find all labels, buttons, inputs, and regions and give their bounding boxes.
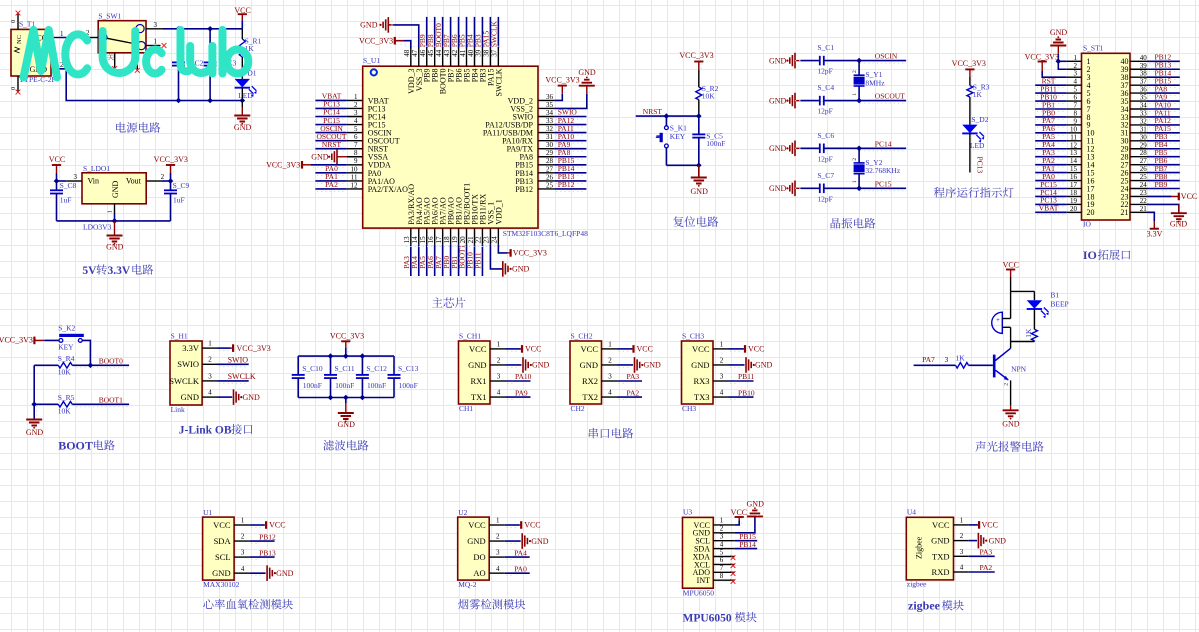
svg-text:PA7: PA7 (922, 355, 935, 364)
wire net PB11 (1035, 92, 1067, 94)
svg-text:VCC: VCC (731, 508, 747, 517)
switch contacts (99, 33, 107, 41)
svg-text:Vin: Vin (88, 176, 100, 185)
junction (664, 113, 670, 119)
svg-text:2: 2 (720, 525, 724, 533)
svg-text:S_C10: S_C10 (302, 364, 323, 373)
wire (82, 340, 90, 365)
svg-text:PC15: PC15 (875, 179, 892, 188)
svg-text:SDA: SDA (214, 536, 232, 546)
pin 34 of ST1 (1130, 108, 1147, 110)
svg-text:21: 21 (467, 236, 475, 244)
svg-text:8MHz: 8MHz (865, 78, 885, 87)
pin 5 (OSCIN) of U1 (347, 132, 363, 134)
wire net PB1 (1035, 108, 1067, 110)
svg-text:2: 2 (1074, 62, 1078, 70)
wire net PA6 (1035, 132, 1067, 134)
pin 47 (VSS_3) of U1 top (418, 48, 420, 66)
GND stem (345, 403, 347, 413)
power port VCC (506, 348, 521, 350)
svg-text:10: 10 (1070, 125, 1078, 133)
wire pin48 to VCC_3V3 (404, 41, 411, 48)
svg-text:PB12: PB12 (515, 185, 533, 194)
svg-text:VCC: VCC (581, 344, 599, 354)
pin 44 (BOOT0) of U1 top (442, 48, 444, 66)
svg-text:SWCLK: SWCLK (490, 20, 499, 47)
pin 38 (PA15) of U1 top (489, 48, 491, 66)
pin 3 (PC14) of U1 (347, 116, 363, 118)
power port VCC (505, 524, 520, 526)
wire net PA6 (434, 245, 436, 276)
svg-text:GND: GND (276, 569, 294, 578)
wire net PB3 (481, 17, 483, 48)
svg-text:18: 18 (443, 236, 451, 244)
LED D1 (235, 79, 250, 88)
pin 1 (VCC) of S_CH2 (602, 348, 618, 350)
ground (107, 236, 123, 242)
pin 35 (VSS_2) of U1 (538, 107, 554, 109)
pin 38 of ST1 (1130, 76, 1147, 78)
pin 4 (PC15) of U1 (347, 124, 363, 126)
wire net PA3 (969, 555, 995, 557)
svg-text:13: 13 (403, 236, 411, 244)
svg-text:VCC_3V3: VCC_3V3 (330, 331, 364, 340)
pin 1 stub of T1 (51, 37, 59, 39)
svg-text:CH2: CH2 (571, 404, 585, 413)
wire net PB5 (1147, 156, 1180, 158)
regulator LDO1 (82, 173, 146, 204)
connector S_CH2 (570, 341, 602, 404)
power bar VCC_3V3 (394, 37, 396, 45)
svg-text:GND: GND (769, 144, 787, 153)
svg-text:41: 41 (459, 49, 467, 57)
svg-text:VCC: VCC (469, 344, 487, 354)
pin 42 (PB6) of U1 top (458, 48, 460, 66)
svg-text:NPN: NPN (1011, 364, 1027, 373)
pin 2 stub of SW1 (90, 37, 98, 39)
pin stub SW1 bottom b (136, 53, 138, 70)
wire net PB11 (729, 380, 754, 382)
pin 6 (XCL) of U3 (713, 563, 734, 565)
wire net SWCLK (218, 380, 249, 382)
junction (696, 113, 702, 119)
svg-text:PA0: PA0 (514, 564, 527, 573)
svg-text:11: 11 (1070, 133, 1077, 141)
svg-text:LED: LED (970, 141, 985, 150)
svg-text:PC14: PC14 (875, 139, 892, 148)
pin 25 (PB12) of U1 (538, 188, 554, 190)
ground (579, 80, 595, 86)
svg-text:PB12: PB12 (259, 532, 276, 541)
wire net PA5 (426, 245, 428, 276)
svg-text:15: 15 (419, 236, 427, 244)
wire net PB10 (729, 396, 754, 398)
wire net PB10 (1035, 100, 1067, 102)
wire net PA9 (506, 396, 531, 398)
svg-text:GND: GND (234, 123, 252, 132)
svg-text:4: 4 (720, 389, 724, 397)
pin 32 of ST1 (1130, 124, 1147, 126)
wire net PA2 (315, 188, 346, 190)
power bar (341, 340, 350, 342)
pin 1 of ST1 (1067, 60, 1082, 62)
junction (168, 178, 174, 184)
wire net PB5 (466, 17, 468, 48)
svg-text:VCC: VCC (982, 521, 998, 530)
capacitor S_C6 plates (820, 144, 824, 154)
svg-text:VCC_3V3: VCC_3V3 (1025, 53, 1059, 62)
svg-text:3: 3 (720, 373, 724, 381)
power bar (735, 516, 744, 518)
pin 41 (PB5) of U1 top (466, 48, 468, 66)
svg-text:VCC_3V3: VCC_3V3 (266, 161, 300, 170)
connector U1 (203, 517, 235, 580)
pin 43 (PB7) of U1 top (450, 48, 452, 66)
svg-text:SWCLK: SWCLK (494, 68, 503, 96)
svg-text:VCC: VCC (748, 345, 764, 354)
svg-text:38: 38 (483, 49, 491, 57)
svg-text:VCC_3V3: VCC_3V3 (679, 51, 713, 60)
svg-text:25: 25 (1140, 173, 1148, 181)
svg-text:Vout: Vout (126, 176, 142, 185)
svg-text:KEY: KEY (670, 132, 686, 141)
svg-text:S_C13: S_C13 (398, 364, 419, 373)
junction (88, 363, 94, 369)
svg-text:VCC_3V3: VCC_3V3 (545, 76, 579, 85)
ground (bar style) (336, 149, 338, 165)
svg-text:5: 5 (354, 125, 358, 133)
svg-text:6: 6 (354, 133, 358, 141)
svg-text:S_C1: S_C1 (817, 43, 834, 52)
power bar (694, 61, 703, 63)
svg-text:48: 48 (403, 49, 411, 57)
svg-text:39: 39 (475, 49, 483, 57)
svg-text:SWIO: SWIO (228, 355, 249, 364)
wire net PA10 (506, 380, 531, 382)
stem (170, 165, 172, 173)
svg-text:VCC: VCC (524, 521, 540, 530)
svg-text:20: 20 (1087, 208, 1095, 217)
svg-text:VCC_3V3: VCC_3V3 (952, 59, 986, 68)
pin 2 (GND) of U3 (713, 532, 734, 534)
svg-text:PB9: PB9 (1155, 180, 1168, 189)
svg-text:20: 20 (459, 236, 467, 244)
pin 4 of ST1 (1067, 84, 1082, 86)
LED in alarm branch (1033, 291, 1035, 300)
section title 滤波电路 (323, 440, 334, 451)
wire net PA4 (505, 556, 530, 558)
svg-text:GND: GND (106, 243, 124, 252)
push button K1 KEY (665, 116, 667, 126)
junction (360, 395, 366, 401)
wire net PC15 (315, 124, 346, 126)
pin 23 of ST1 (1130, 195, 1147, 197)
svg-text:RXD: RXD (932, 567, 950, 577)
svg-text:31: 31 (546, 133, 554, 141)
wire net PA11 (1147, 116, 1180, 118)
ground (bar style) (977, 533, 979, 549)
capacitor C3 (209, 29, 211, 63)
pin 28 of ST1 (1130, 156, 1147, 158)
svg-text:47: 47 (411, 49, 419, 57)
power bar (1150, 228, 1159, 230)
pin 4 (TX1) of S_CH1 (490, 396, 506, 398)
wire net PA0 (1035, 180, 1067, 182)
svg-text:GND: GND (769, 184, 787, 193)
wire net PB0 (450, 245, 452, 276)
svg-text:12: 12 (351, 181, 359, 189)
svg-text:10K: 10K (702, 91, 716, 100)
svg-text:S_C11: S_C11 (335, 364, 355, 373)
pin 19 of ST1 (1067, 203, 1082, 205)
wire net PC14 (1035, 195, 1067, 197)
pin 1 indicator (371, 69, 377, 75)
svg-text:GND: GND (755, 361, 773, 370)
wire net PA9 (1147, 100, 1180, 102)
ground (729, 364, 745, 366)
push button K2 KEY (59, 339, 63, 343)
pin 24 of ST1 (1130, 188, 1147, 190)
power port VCC (617, 348, 632, 350)
wire net PB10 (473, 245, 475, 276)
wire net PA5 (1035, 140, 1067, 142)
LED D2 (962, 125, 977, 134)
svg-text:3: 3 (960, 548, 964, 556)
svg-text:3: 3 (154, 21, 158, 29)
junction (856, 58, 862, 64)
wire (969, 77, 971, 86)
svg-text:S_U1: S_U1 (363, 56, 380, 65)
pin 39 (PB3) of U1 top (481, 48, 483, 66)
pin 48 (VDD_3) of U1 top (410, 48, 412, 66)
svg-text:32: 32 (1140, 117, 1148, 125)
resistor (956, 363, 969, 369)
svg-text:38: 38 (1140, 70, 1148, 78)
junction (31, 402, 37, 408)
pin 3 (RX3) of S_CH3 (713, 380, 729, 382)
svg-text:39: 39 (1140, 62, 1148, 70)
section title 心率血氧检测模块 (203, 599, 213, 609)
power bar (265, 521, 267, 529)
connector H1 J-Link (170, 341, 202, 405)
svg-text:4: 4 (354, 117, 358, 125)
wire net PB12 (1147, 60, 1180, 62)
wire pin24 VDD_1 to VCC_3V3 (498, 245, 507, 253)
svg-text:0: 0 (10, 87, 17, 90)
svg-text:4: 4 (241, 565, 245, 573)
svg-text:VCC: VCC (213, 520, 231, 530)
svg-text:1K: 1K (1024, 328, 1033, 338)
svg-text:3: 3 (945, 356, 949, 364)
svg-text:S_C8: S_C8 (60, 181, 77, 190)
svg-text:VCC: VCC (49, 155, 65, 164)
GND stem (1010, 405, 1012, 410)
svg-text:zigbee: zigbee (907, 580, 927, 589)
power bar (1038, 61, 1047, 63)
svg-text:OSCOUT: OSCOUT (875, 92, 905, 101)
pin 8 (INT) of U3 (713, 579, 734, 581)
wire net PA4 (1035, 148, 1067, 150)
svg-text:PA2: PA2 (980, 563, 993, 572)
VCC stem (56, 165, 58, 173)
wire net PA0 (315, 172, 346, 174)
svg-text:46: 46 (419, 49, 427, 57)
pin 17 (PA7/AO) of U1 bottom (442, 228, 444, 245)
component body fills (11, 29, 51, 76)
pin 14 (PA4/AO) of U1 bottom (418, 228, 420, 245)
svg-text:zigbee: zigbee (908, 599, 941, 613)
junction (343, 353, 349, 359)
svg-text:19: 19 (451, 236, 459, 244)
svg-text:S_CH3: S_CH3 (682, 332, 704, 341)
connector ST1 40-pin header (1082, 53, 1131, 220)
svg-text:32.768KHz: 32.768KHz (865, 166, 900, 175)
ground (bar style) (502, 261, 504, 277)
wire net PA12 (1147, 124, 1180, 126)
svg-text:GND: GND (989, 536, 1007, 545)
ground at U4 pin2 (969, 540, 977, 542)
wire net PC14 (824, 147, 906, 149)
svg-text:TX1: TX1 (471, 392, 487, 402)
svg-text:33: 33 (546, 117, 554, 125)
svg-text:S_C12: S_C12 (366, 364, 387, 373)
wire net PB14 (1147, 76, 1180, 78)
pin 3 stub (66, 180, 82, 182)
svg-text:IO: IO (1083, 248, 1097, 262)
capacitor C5 plates (692, 134, 705, 137)
svg-text:NRST: NRST (322, 140, 342, 149)
pin 21 of ST1 (1130, 211, 1147, 213)
svg-text:LDO3V3: LDO3V3 (83, 222, 112, 231)
svg-text:15: 15 (1070, 165, 1078, 173)
wire BOOT0 (72, 364, 129, 366)
wire net PA3 (410, 245, 412, 276)
svg-text:13: 13 (1070, 149, 1078, 157)
svg-text:34: 34 (1140, 102, 1148, 110)
svg-text:1uF: 1uF (173, 195, 185, 204)
wire net VBAT (315, 99, 346, 101)
svg-text:4: 4 (960, 564, 964, 572)
wire (34, 403, 58, 405)
svg-text:GND: GND (747, 500, 765, 509)
svg-text:PA3: PA3 (627, 372, 640, 381)
pin 29 (PA8) of U1 (538, 156, 554, 158)
svg-text:AO: AO (473, 568, 485, 578)
svg-text:6: 6 (1074, 94, 1078, 102)
wire net BOOT1 (466, 245, 468, 276)
capacitor C8 plates (50, 190, 63, 193)
wire net PB3 (1147, 140, 1180, 142)
no-connect X top of T1 (16, 11, 21, 16)
svg-text:9: 9 (1074, 117, 1078, 125)
svg-text:1: 1 (852, 180, 858, 183)
power bar (52, 164, 61, 166)
svg-text:2: 2 (852, 70, 858, 73)
dotted ERC marks (406, 246, 503, 248)
svg-text:29: 29 (546, 149, 554, 157)
connector U2 (458, 517, 490, 580)
svg-text:S_SW1: S_SW1 (98, 12, 121, 21)
pin 2 (GND) of U4 (954, 540, 969, 542)
wire net PB15 (554, 164, 586, 166)
svg-text:GND: GND (931, 536, 949, 546)
wire net PA11 (554, 132, 586, 134)
svg-text:PB11: PB11 (474, 252, 483, 269)
svg-text:2: 2 (208, 356, 212, 364)
power bar (632, 345, 634, 353)
section title 声光报警电路 (975, 441, 985, 452)
wire net OSCIN (824, 60, 906, 62)
svg-text:4: 4 (720, 540, 724, 548)
pin 4 (GND) of U1 (234, 572, 250, 574)
svg-text:S_C7: S_C7 (817, 171, 834, 180)
svg-text:14: 14 (1070, 157, 1078, 165)
wire net PA3 (617, 380, 642, 382)
wire net PB12 (554, 188, 586, 190)
svg-text:23: 23 (483, 236, 491, 244)
svg-text:GND: GND (111, 180, 120, 198)
svg-text:3: 3 (1074, 70, 1078, 78)
pin 7 (NRST) of U1 (347, 148, 363, 150)
power port VCC at U3 pin1 (735, 520, 740, 525)
pin 4 (GND) of H1 (202, 396, 217, 398)
ground (26, 420, 42, 426)
svg-text:36: 36 (1140, 86, 1148, 94)
power bar (744, 345, 746, 353)
wire net BOOT0 (442, 17, 444, 48)
wire net PC15 (1035, 188, 1067, 190)
wire (114, 213, 116, 221)
svg-text:+: + (996, 316, 1000, 324)
wire net PB13 (554, 180, 586, 182)
svg-text:34: 34 (546, 109, 554, 117)
power bar (978, 521, 980, 529)
pin 2 (GND) of U2 (489, 540, 505, 542)
wire net PA7 (442, 245, 444, 276)
wire net PB6 (1147, 164, 1180, 166)
wire net PB7 (1147, 172, 1180, 174)
pin 3 (RX2) of S_CH2 (602, 380, 618, 382)
svg-text:30: 30 (1140, 133, 1148, 141)
bottom wire (57, 220, 171, 222)
capacitor S_C1 12pF (801, 60, 820, 62)
pin 8 of ST1 (1067, 116, 1082, 118)
wire net PA7 (1035, 124, 1067, 126)
svg-text:TXD: TXD (932, 551, 949, 561)
power bar (238, 13, 247, 15)
svg-text:30: 30 (546, 141, 554, 149)
svg-text:22: 22 (475, 236, 483, 244)
svg-text:1: 1 (241, 517, 245, 525)
svg-text:16: 16 (1070, 173, 1078, 181)
pin 24 (VDD_1) of U1 bottom (497, 228, 499, 245)
ground (bar style) (521, 533, 523, 549)
wire net PA7 (914, 364, 956, 366)
wire net PB8 (434, 17, 436, 48)
stem (1010, 270, 1012, 278)
svg-text:3: 3 (496, 549, 500, 557)
svg-text:1: 1 (497, 341, 501, 349)
pin 8 (VSSA) of U1 (347, 156, 363, 158)
svg-text:44: 44 (435, 49, 443, 57)
pin 2 (GND) of S_CH2 (602, 364, 618, 366)
svg-text:GND: GND (311, 153, 329, 162)
svg-text:VDD_1: VDD_1 (494, 199, 503, 224)
junction (856, 146, 862, 152)
wire (698, 70, 700, 87)
svg-text:7: 7 (354, 141, 358, 149)
wire (698, 100, 700, 116)
